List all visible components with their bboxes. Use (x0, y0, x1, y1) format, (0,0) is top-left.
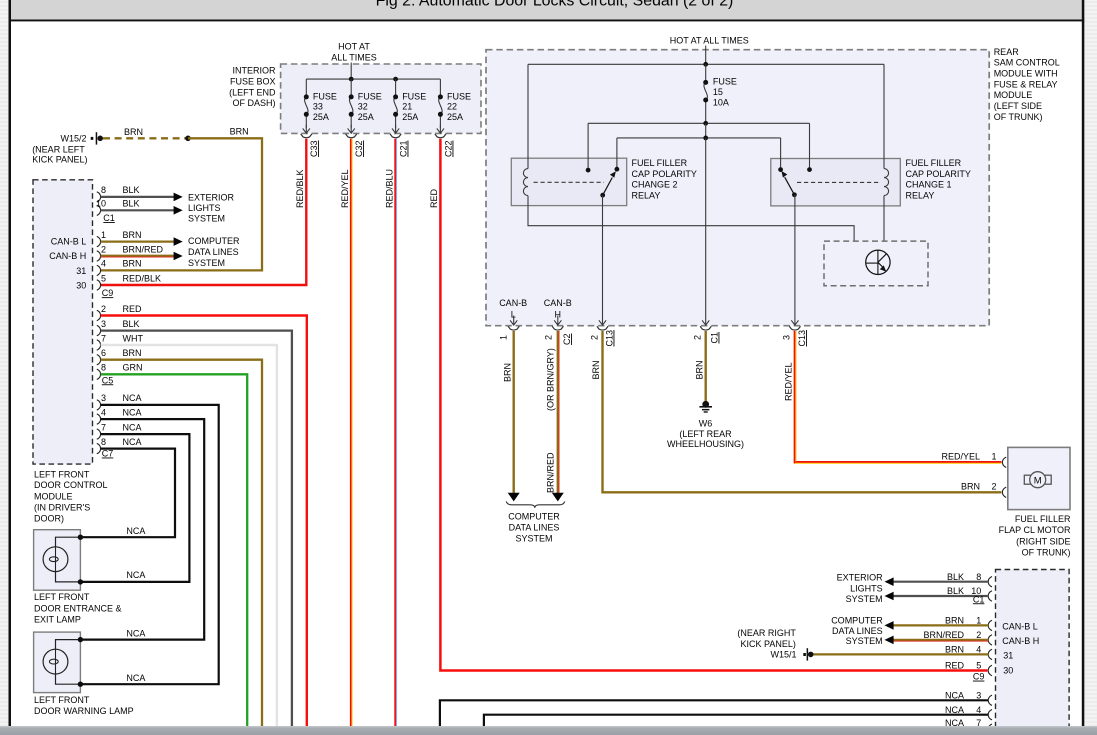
svg-text:SYSTEM: SYSTEM (188, 214, 225, 224)
label: W15/2 (NEAR LEFT KICK PANEL) (32, 133, 87, 164)
pin 3 C7 arc (97, 400, 101, 410)
svg-text:MODULE: MODULE (994, 90, 1033, 100)
pin 4 C9 arc (97, 265, 101, 275)
svg-text:BLK: BLK (123, 185, 140, 195)
svg-text:1: 1 (976, 616, 981, 626)
wire: BLK pin 8 to exterior lights arrow (101, 196, 174, 198)
svg-text:LIGHTS: LIGHTS (850, 583, 883, 593)
svg-text:33: 33 (313, 102, 323, 112)
pin 2 C9 arc (97, 251, 101, 261)
wire: relay K2 common down to C13 output (602, 195, 604, 325)
node: lamp L2 bottom terminal (78, 682, 83, 687)
arrow (left) computer data lines (885, 636, 894, 645)
svg-text:BRN/RED: BRN/RED (546, 452, 556, 493)
wire: RED from fuse 22 C22 down then right to right module pin 5 (440, 139, 987, 671)
svg-text:BRN: BRN (123, 348, 142, 358)
label: pin 2 RED (101, 304, 142, 314)
pin 8 C7 arc (97, 443, 101, 453)
pin 2 C9 arc (right module) (988, 635, 992, 645)
svg-text:BRN: BRN (694, 360, 704, 379)
labels inside module: CAN-B L / CAN-B H / 31 / 30 (49, 237, 86, 291)
svg-text:CAN-B: CAN-B (499, 298, 527, 308)
svg-text:HOT AT ALL TIMES: HOT AT ALL TIMES (670, 36, 749, 46)
svg-text:DOOR): DOOR) (34, 514, 64, 524)
wire: BRN from 2 C1 down to ground W6 (705, 331, 707, 402)
fuse 22 25A (437, 79, 471, 133)
label: NCA 7 (945, 718, 981, 728)
wire: NCA pin 4 left then down off page (484, 715, 988, 726)
relay K2 dashed actuation line (534, 181, 605, 183)
wire: BRN from splice down to left module pin 4 (101, 138, 262, 270)
arrow to exterior lights system (174, 193, 183, 202)
svg-text:CAP POLARITY: CAP POLARITY (906, 169, 971, 179)
page left border (9, 0, 12, 727)
svg-text:25A: 25A (313, 112, 329, 122)
fuse 21 25A (392, 79, 426, 133)
left textured strip (0, 0, 9, 735)
wire: bus2 right drop to relay K1 contact (809, 123, 811, 169)
svg-text:RED/BLU: RED/BLU (384, 169, 394, 208)
svg-text:(NEAR LEFT: (NEAR LEFT (32, 144, 85, 154)
svg-text:CHANGE 1: CHANGE 1 (906, 180, 952, 190)
svg-text:3: 3 (101, 393, 106, 403)
wire: fuse box supply bus (306, 78, 440, 80)
svg-text:BRN: BRN (230, 126, 249, 136)
arrow to computer data lines system (174, 252, 183, 261)
lamp L2 bulb (43, 640, 80, 685)
connector C33 cup (301, 134, 312, 138)
svg-text:FUEL FILLER: FUEL FILLER (1015, 514, 1071, 524)
pin 8 C1 arc (97, 192, 101, 202)
node: bus junction at fuse 21 (393, 77, 398, 82)
label: LEFT FRONT DOOR CONTROL MODULE (IN DRIVER'S DOOR) (34, 469, 108, 523)
svg-text:C5: C5 (102, 375, 114, 385)
svg-text:RED: RED (945, 661, 965, 671)
svg-text:NCA: NCA (126, 673, 145, 683)
ground W15/1 symbol (803, 648, 813, 660)
pin 8 C5 arc (97, 369, 101, 379)
svg-text:WHEELHOUSING): WHEELHOUSING) (667, 439, 744, 449)
label: C32 (354, 140, 364, 157)
svg-text:10: 10 (96, 199, 106, 209)
connector cup 2 C13 (597, 326, 608, 330)
svg-text:(LEFT END: (LEFT END (229, 87, 276, 97)
arrow (left) exterior lights (885, 577, 894, 586)
label: BRN/RED 2 (923, 630, 981, 640)
svg-text:FUEL FILLER: FUEL FILLER (632, 158, 688, 168)
connector cup 2 C1 (700, 326, 711, 330)
svg-text:NCA: NCA (123, 422, 142, 432)
label: pin 1 BRN (101, 230, 142, 240)
svg-text:RELAY: RELAY (906, 190, 935, 200)
top gray title bar (11, 0, 1082, 20)
wire: GRN pin 8 right then down to page bottom (101, 374, 248, 726)
svg-text:CAP POLARITY: CAP POLARITY (632, 169, 697, 179)
label: C33 (309, 140, 319, 157)
ground W6 (699, 401, 712, 413)
svg-text:DATA LINES: DATA LINES (188, 247, 239, 257)
label: W15/1 (NEAR RIGHT KICK PANEL) (737, 628, 796, 660)
pin 10 C1 arc (right module) (988, 591, 992, 601)
svg-text:W15/2: W15/2 (60, 133, 86, 143)
svg-text:CAN-B: CAN-B (544, 298, 572, 308)
label: pin 8 BLK (101, 185, 140, 195)
interior fuse box enclosure (281, 64, 481, 133)
pin 7 C7 arc (97, 429, 101, 439)
svg-text:OF TRUNK): OF TRUNK) (1022, 548, 1071, 558)
fuse 32 25A (348, 79, 382, 133)
svg-text:BLK: BLK (947, 586, 964, 596)
svg-text:BRN: BRN (591, 360, 601, 379)
relay K1 coil (884, 159, 889, 206)
relay K2 (fuel filler cap polarity change 2) enclosure (511, 158, 626, 205)
page top border (9, 20, 1085, 22)
wire: BLK pin 10 from exterior lights arrow (894, 595, 989, 597)
svg-text:MODULE: MODULE (34, 491, 73, 501)
label: pin 2 BRN/RED (101, 244, 164, 254)
pin 4 C7 arc (97, 414, 101, 424)
arrow at 2 C1 output (702, 320, 709, 325)
wire: relay K1 common down to C13 output (794, 195, 796, 325)
wire: BLK pin 3 right then down to page bottom (101, 331, 292, 726)
node: lamp L1 bottom terminal (78, 579, 83, 584)
label: RED 5 (945, 661, 981, 671)
wire: BRN pin 4 from W15/1 (813, 653, 988, 655)
wire: CAN-B L stub and arrow at SAM edge (510, 316, 517, 326)
arrow at 3 C13 output (791, 320, 798, 325)
wire: SAM bus 3 (617, 137, 781, 139)
svg-text:2: 2 (589, 335, 599, 340)
label: CAN-B L pin group (499, 298, 527, 320)
svg-text:BRN/RED: BRN/RED (923, 630, 964, 640)
wire: WHT pin 7 right then down to page bottom (101, 345, 277, 726)
svg-text:BRN: BRN (123, 259, 142, 269)
svg-text:C9: C9 (102, 288, 114, 298)
svg-text:32: 32 (358, 102, 368, 112)
pin 5 C9 arc (97, 280, 101, 290)
node: bus3 junction at feed (703, 136, 708, 141)
label: pin 7 NCA (101, 422, 142, 432)
label: COMPUTER DATA LINES SYSTEM (bottom) (508, 512, 560, 544)
svg-text:DATA LINES: DATA LINES (832, 626, 883, 636)
connector C22 cup (435, 134, 446, 138)
labels inside right module: CAN-B L / CAN-B H / 31 / 30 (1002, 621, 1039, 675)
node: lamp L2 top terminal (78, 637, 83, 642)
wire: bus2 left drop to relay K2 contact (587, 123, 589, 170)
svg-text:HOT AT: HOT AT (338, 41, 370, 51)
svg-text:CHANGE 2: CHANGE 2 (632, 180, 678, 190)
svg-text:LEFT FRONT: LEFT FRONT (34, 469, 90, 479)
svg-text:BRN: BRN (124, 127, 143, 137)
wire: BRN CAN-B L down to computer data lines arrow (513, 331, 515, 493)
svg-text:30: 30 (1003, 665, 1013, 675)
svg-text:EXTERIOR: EXTERIOR (188, 192, 235, 202)
wire: feed between bus2 and bus3 (705, 123, 707, 138)
svg-text:LIGHTS: LIGHTS (188, 203, 221, 213)
svg-text:(LEFT REAR: (LEFT REAR (679, 429, 732, 439)
label: pin 6 BRN (101, 348, 142, 358)
rear SAM module enclosure (486, 50, 989, 326)
wire: NCA pin 8 to entrance/exit lamp (top) (82, 449, 175, 538)
svg-text:COMPUTER: COMPUTER (188, 236, 240, 246)
svg-text:KICK PANEL): KICK PANEL) (741, 639, 796, 649)
svg-text:5: 5 (976, 661, 981, 671)
svg-text:(OR BRN/GRY): (OR BRN/GRY) (546, 348, 556, 411)
relay K2 coil (523, 158, 528, 205)
pin 10 C1 arc (97, 205, 101, 215)
svg-text:NCA: NCA (945, 690, 964, 700)
wire: feed from HOT AT ALL TIMES into fuse box (350, 63, 352, 80)
svg-text:FUSE: FUSE (447, 91, 471, 101)
wire: bus3 left drop to relay K2 contact (616, 138, 618, 169)
svg-text:M: M (1034, 475, 1042, 486)
arrow to exterior lights system (174, 206, 183, 215)
svg-text:BRN: BRN (945, 645, 964, 655)
svg-text:7: 7 (101, 422, 106, 432)
label: C21 (399, 140, 409, 157)
label: BLK 8 (947, 572, 981, 582)
motor pin 1 arc (1002, 457, 1006, 467)
svg-text:4: 4 (101, 259, 106, 269)
svg-text:FUSE: FUSE (402, 91, 426, 101)
svg-text:DOOR WARNING LAMP: DOOR WARNING LAMP (34, 706, 134, 716)
svg-text:1: 1 (499, 335, 509, 340)
label: COMPUTER DATA LINES SYSTEM (right) (831, 616, 883, 646)
svg-text:C13: C13 (797, 330, 807, 347)
fuse 33 25A (303, 79, 337, 133)
svg-text:21: 21 (402, 102, 412, 112)
label: pin 10 BLK (96, 199, 140, 209)
label: EXTERIOR LIGHTS SYSTEM (right) (837, 573, 884, 605)
svg-text:BRN/RED: BRN/RED (123, 244, 164, 254)
relay K1 (fuel filler cap polarity change 1) enclosure (771, 159, 901, 206)
svg-text:FUSE & RELAY: FUSE & RELAY (994, 79, 1058, 89)
wire: NCA pin 7 to entrance/exit lamp (bottom) (82, 434, 189, 582)
svg-text:CAN-B H: CAN-B H (1002, 636, 1039, 646)
svg-text:FLAP CL MOTOR: FLAP CL MOTOR (999, 525, 1071, 535)
svg-text:LEFT FRONT: LEFT FRONT (34, 592, 90, 602)
svg-text:RED: RED (429, 188, 439, 208)
node: splice on BRN wire (185, 136, 191, 142)
svg-text:SYSTEM: SYSTEM (515, 534, 552, 544)
svg-text:1: 1 (101, 230, 106, 240)
wire: bus1 left drop to relay K2 coil (527, 64, 529, 158)
svg-text:BRN: BRN (945, 616, 964, 626)
svg-text:OF TRUNK): OF TRUNK) (994, 112, 1043, 122)
svg-text:2: 2 (693, 335, 703, 340)
svg-text:BRN: BRN (502, 363, 512, 382)
connector cup 3 C13 (789, 326, 800, 330)
pin 1 C9 arc (right module) (988, 620, 992, 630)
svg-text:RED/YEL: RED/YEL (941, 452, 980, 462)
label: LEFT FRONT DOOR WARNING LAMP (34, 695, 134, 716)
svg-text:30: 30 (76, 281, 86, 291)
wire: BLK pin 10 to exterior lights arrow (101, 209, 174, 211)
svg-text:CAN-B H: CAN-B H (49, 251, 86, 261)
svg-text:25A: 25A (447, 112, 463, 122)
wire: BRN from 2 C13 down then right to flap motor pin 2 (603, 331, 1002, 492)
pin 5 C9 arc (right module) (988, 665, 992, 675)
svg-text:2: 2 (976, 630, 981, 640)
label: BRN 4 (945, 645, 981, 655)
svg-text:(LEFT SIDE: (LEFT SIDE (994, 101, 1042, 111)
pin 6 C5 arc (97, 355, 101, 365)
wire: BRN pin 1 to computer data lines arrow (101, 240, 174, 242)
connector cup CAN-B H pin 2 (552, 326, 563, 330)
wire: SAM bus 2 (588, 122, 809, 124)
svg-text:CAN-B L: CAN-B L (1002, 621, 1038, 631)
svg-text:(NEAR RIGHT: (NEAR RIGHT (737, 628, 796, 638)
wire: NCA pin 3 to door warning lamp (bottom) (82, 405, 219, 684)
arrow to computer data lines system (174, 237, 183, 246)
label: pin 7 WHT (101, 333, 144, 343)
arrow at 2 C13 output (599, 320, 606, 325)
svg-text:C1: C1 (710, 332, 720, 344)
svg-text:BLK: BLK (947, 572, 964, 582)
relay K2 switch (586, 167, 620, 198)
label: pin 3 NCA (101, 393, 142, 403)
svg-text:LEFT FRONT: LEFT FRONT (34, 695, 90, 705)
label: pin 8 NCA (101, 437, 142, 447)
fuse 15 10A (703, 64, 737, 123)
svg-text:6: 6 (101, 348, 106, 358)
svg-text:25A: 25A (358, 112, 374, 122)
pin 4 C9 arc (right module) (988, 649, 992, 659)
pin 8 C1 arc (right module) (988, 577, 992, 587)
svg-text:COMPUTER: COMPUTER (508, 512, 560, 522)
wire: RED/YEL from fuse 32 C32 down to page bottom (350, 139, 353, 726)
lamp L2 enclosure (34, 632, 81, 693)
label: EXTERIOR LIGHTS SYSTEM (188, 192, 235, 223)
svg-text:SYSTEM: SYSTEM (846, 594, 883, 604)
wire: SAM supply bus 1 (528, 63, 884, 65)
label: pin 8 GRN (101, 363, 143, 373)
node: lamp L1 top terminal (78, 535, 83, 540)
svg-text:FUSE: FUSE (713, 76, 737, 86)
svg-text:NCA: NCA (945, 705, 964, 715)
arrow (left) exterior lights (885, 592, 894, 601)
svg-text:3: 3 (782, 335, 792, 340)
svg-text:FUEL FILLER: FUEL FILLER (906, 158, 962, 168)
svg-text:SYSTEM: SYSTEM (846, 636, 883, 646)
svg-text:(IN DRIVER'S: (IN DRIVER'S (34, 502, 90, 512)
label: CAN-B H pin group (544, 298, 572, 320)
svg-text:BLK: BLK (123, 199, 140, 209)
svg-text:CAN-B L: CAN-B L (51, 237, 87, 247)
node: bus junction at fuse 32 (349, 77, 354, 82)
svg-text:2: 2 (991, 481, 996, 491)
svg-text:C2: C2 (562, 333, 572, 345)
svg-text:C1: C1 (103, 213, 115, 223)
svg-text:OF DASH): OF DASH) (232, 98, 275, 108)
svg-text:25A: 25A (402, 112, 418, 122)
pin 7 C5 arc (97, 340, 101, 350)
svg-text:BRN: BRN (961, 481, 980, 491)
svg-text:C21: C21 (399, 140, 409, 157)
label: pin 4 BRN (101, 259, 142, 269)
svg-text:8: 8 (101, 437, 106, 447)
svg-text:C22: C22 (444, 140, 454, 157)
svg-text:ALL TIMES: ALL TIMES (331, 53, 377, 63)
wire: RED/YEL from 3 C13 down then right to flap motor pin 1 (795, 331, 1002, 463)
label: INTERIOR FUSE BOX (LEFT END OF DASH) (229, 65, 276, 108)
svg-text:4: 4 (101, 407, 106, 417)
connector cup CAN-B L pin 1 (508, 326, 519, 330)
svg-text:C7: C7 (102, 449, 114, 459)
svg-text:RED/BLK: RED/BLK (123, 273, 162, 283)
svg-text:3: 3 (101, 319, 106, 329)
svg-text:C1: C1 (973, 594, 985, 604)
svg-text:RED: RED (123, 304, 143, 314)
svg-text:15: 15 (713, 87, 723, 97)
underbrace below CAN-B arrows (506, 501, 565, 508)
wire: RED/BLK from fuse 33 C33 down and left to left module pin 5 (101, 139, 307, 285)
pin 4 C7 arc (right module) (988, 710, 992, 720)
svg-text:2: 2 (101, 244, 106, 254)
wire: BRN pin 1 from computer data lines arrow (894, 624, 989, 626)
svg-text:22: 22 (447, 102, 457, 112)
svg-text:RED/BLK: RED/BLK (295, 169, 305, 208)
wire: CAN-B H stub and arrow at SAM edge (554, 316, 561, 326)
left front door control module enclosure (33, 180, 93, 464)
arrowhead CAN-B H (552, 493, 564, 502)
svg-text:EXIT LAMP: EXIT LAMP (34, 614, 81, 624)
label: W6 (LEFT REAR WHEELHOUSING) (667, 419, 744, 450)
actuator motor symbol (866, 250, 890, 274)
wire: dashed BRN from W15/2 to splice (103, 137, 188, 139)
svg-text:NCA: NCA (123, 393, 142, 403)
svg-text:8: 8 (101, 363, 106, 373)
label: BRN 2 at motor (961, 481, 997, 491)
svg-text:NCA: NCA (126, 628, 145, 638)
svg-text:NCA: NCA (126, 526, 145, 536)
node: bus2 junction at feed (703, 121, 708, 126)
svg-text:10A: 10A (713, 98, 729, 108)
relay K1 dashed actuation line (797, 181, 879, 183)
svg-text:2: 2 (101, 304, 106, 314)
wire: BRN/RED pin 2 to computer data lines arrow (101, 256, 174, 257)
wire: bus1 right drop to relay K1 coil (883, 64, 885, 158)
label: pin 5 RED/BLK (101, 273, 161, 283)
wire: BLK pin 8 from exterior lights arrow (894, 581, 989, 583)
arrowhead CAN-B L (508, 493, 520, 502)
right textured strip (1084, 0, 1097, 735)
svg-text:COMPUTER: COMPUTER (831, 616, 883, 626)
lamp L1 enclosure (34, 530, 81, 591)
label: C22 (444, 140, 454, 157)
svg-text:RED/YEL: RED/YEL (784, 362, 794, 401)
svg-text:DOOR CONTROL: DOOR CONTROL (34, 480, 108, 490)
svg-text:31: 31 (1003, 650, 1013, 660)
svg-text:EXTERIOR: EXTERIOR (837, 573, 884, 583)
label: NCA 4 (945, 705, 981, 715)
wire: BRN/RED CAN-B H down to computer data lines arrow (558, 331, 559, 493)
relay K1 switch (778, 167, 812, 197)
svg-text:4: 4 (976, 645, 981, 655)
wire: BRN/RED pin 2 from computer data lines arrow (894, 640, 989, 641)
svg-text:1: 1 (991, 452, 996, 462)
svg-text:INTERIOR: INTERIOR (232, 65, 276, 75)
svg-text:3: 3 (976, 690, 981, 700)
svg-text:NCA: NCA (126, 570, 145, 580)
svg-text:RED/YEL: RED/YEL (340, 169, 350, 208)
connector C32 cup (346, 134, 357, 138)
svg-text:W15/1: W15/1 (770, 650, 796, 660)
actuator enclosure (dashed) (824, 241, 928, 286)
label: BRN 1 (945, 616, 981, 626)
svg-text:2: 2 (544, 335, 554, 340)
ground W15/2 symbol (91, 132, 103, 144)
